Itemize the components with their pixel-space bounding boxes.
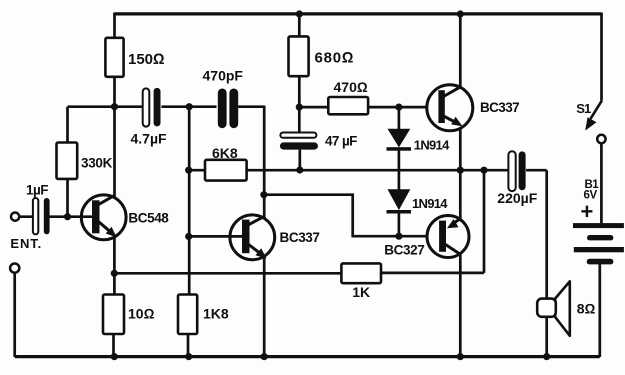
svg-text:BC327: BC327: [384, 243, 424, 258]
svg-text:1N914: 1N914: [414, 137, 450, 152]
svg-text:S1: S1: [576, 101, 591, 116]
svg-text:330K: 330K: [81, 156, 113, 171]
svg-text:BC337: BC337: [280, 230, 320, 245]
svg-text:ENT.: ENT.: [10, 236, 42, 251]
svg-text:47 µF: 47 µF: [325, 133, 357, 148]
svg-text:470Ω: 470Ω: [334, 79, 368, 95]
svg-text:+: +: [581, 199, 594, 224]
svg-text:1K: 1K: [352, 284, 370, 300]
svg-text:1µF: 1µF: [26, 183, 48, 198]
svg-text:10Ω: 10Ω: [128, 305, 155, 321]
svg-text:8Ω: 8Ω: [577, 301, 596, 317]
svg-text:BC548: BC548: [128, 210, 169, 225]
svg-text:150Ω: 150Ω: [128, 51, 165, 68]
svg-text:1K8: 1K8: [203, 305, 229, 321]
svg-text:680Ω: 680Ω: [315, 50, 355, 67]
svg-text:6K8: 6K8: [212, 145, 238, 161]
svg-text:470pF: 470pF: [203, 68, 244, 84]
svg-text:BC337: BC337: [480, 100, 519, 115]
svg-text:220µF: 220µF: [497, 190, 537, 206]
svg-text:4.7µF: 4.7µF: [131, 131, 168, 147]
svg-text:1N914: 1N914: [412, 196, 448, 211]
